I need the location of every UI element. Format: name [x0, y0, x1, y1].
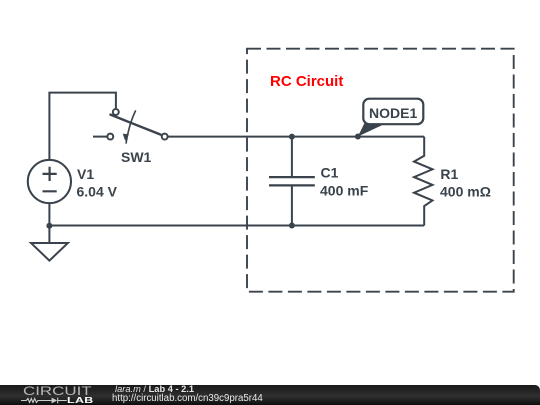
svg-text:6.04 V: 6.04 V [77, 183, 118, 199]
footer author/title [115, 384, 194, 394]
svg-text:400 mF: 400 mF [320, 183, 369, 199]
junction dot NODE1 [355, 134, 361, 140]
svg-text:400 mΩ: 400 mΩ [440, 184, 491, 200]
CircuitLab logo text [23, 384, 92, 398]
svg-text:R1: R1 [440, 166, 458, 182]
CircuitLab logo resistor-diode glyph [21, 396, 68, 405]
voltage source V1 [28, 160, 71, 203]
junction dot C1 bottom [289, 223, 295, 229]
svg-text:C1: C1 [321, 164, 339, 180]
capacitor C1 [269, 137, 315, 226]
wire SW1 to R1 [168, 136, 424, 138]
resistor R1 [414, 137, 433, 226]
wire bottom rail [49, 225, 424, 227]
switch SW1 [93, 109, 168, 144]
footer url [112, 393, 263, 404]
ground [31, 243, 68, 261]
enclosure box RC Circuit [247, 49, 514, 292]
junction dot C1 top [289, 134, 295, 140]
wire V1 bottom to ground [48, 203, 50, 243]
junction dot V1 bottom [46, 223, 52, 229]
svg-text:SW1: SW1 [121, 149, 152, 165]
CircuitLab logo LAB [67, 396, 94, 405]
svg-text:V1: V1 [77, 166, 94, 182]
svg-text:NODE1: NODE1 [369, 105, 417, 121]
node flag NODE1 tail [358, 122, 386, 137]
footer bar [0, 385, 540, 405]
node flag NODE1 box [363, 99, 423, 125]
svg-text:RC Circuit: RC Circuit [270, 73, 343, 90]
wire top loop V1 to SW1 [49, 93, 116, 160]
